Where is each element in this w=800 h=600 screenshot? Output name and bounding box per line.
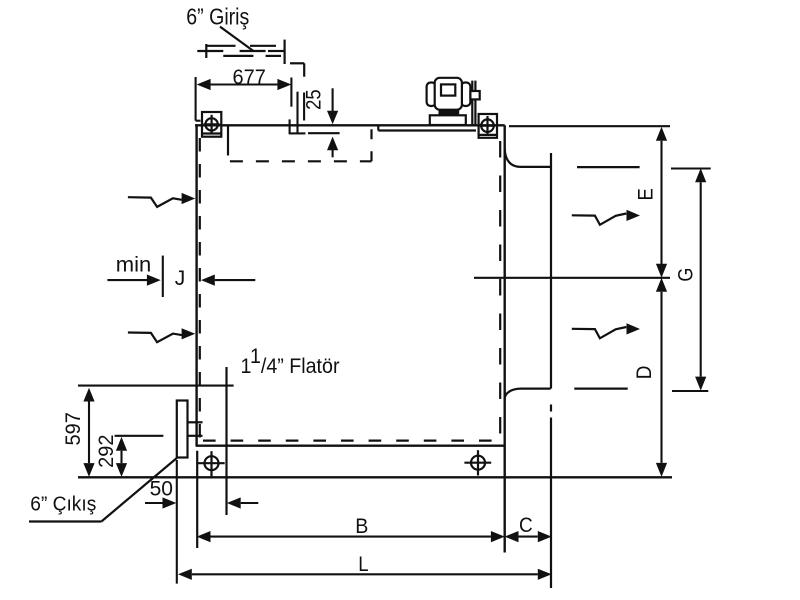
weld arrow right upper <box>572 214 627 225</box>
svg-text:6” Giriş: 6” Giriş <box>186 4 249 30</box>
tank left wall <box>195 125 197 445</box>
svg-text:D: D <box>633 366 656 380</box>
svg-text:E: E <box>634 188 657 200</box>
svg-text:J: J <box>175 267 186 290</box>
hidden shelf dashed horizontal <box>230 160 372 162</box>
left base leg <box>196 451 198 548</box>
dimension 597 <box>88 402 90 464</box>
leader line outlet <box>29 458 177 522</box>
tank right wall <box>504 125 506 552</box>
svg-text:25: 25 <box>303 89 326 110</box>
upper oil level line <box>577 166 640 168</box>
svg-text:C: C <box>519 514 533 537</box>
weld arrow right lower <box>572 327 627 338</box>
svg-text:11/4” Flatör: 11/4” Flatör <box>241 345 340 378</box>
svg-text:min: min <box>116 254 152 277</box>
hidden shelf dashed vertical <box>370 127 372 162</box>
leader line inlet <box>220 27 253 51</box>
top-left lifting lug <box>202 112 221 137</box>
svg-text:G: G <box>675 268 698 282</box>
inlet flange tick right <box>284 40 286 64</box>
dimension C <box>507 536 538 538</box>
interior dashed bottom <box>203 440 499 442</box>
outlet flange <box>177 401 188 458</box>
pump mounting plate <box>378 125 476 130</box>
dimension 677 <box>196 77 292 121</box>
dimension 292 <box>115 436 164 463</box>
svg-text:292: 292 <box>95 435 118 468</box>
weld arrow left lower <box>128 333 182 343</box>
floor line <box>78 476 672 478</box>
svg-text:597: 597 <box>62 412 85 445</box>
right end plate edge <box>550 153 552 588</box>
tank top line <box>195 124 505 126</box>
inlet pipe hidden top edge <box>207 45 276 47</box>
interior dashed right wall <box>499 141 501 441</box>
dimension E <box>660 141 662 264</box>
pump riser pipe <box>470 81 479 126</box>
tank bottom line <box>196 445 505 447</box>
outlet stub pipe <box>188 422 203 436</box>
lower oil level line <box>574 388 627 390</box>
top-right lifting lug <box>479 114 497 138</box>
interior dashed left wall <box>199 138 201 441</box>
outlet top reference line <box>78 385 234 387</box>
float tube bottom segment <box>225 367 227 515</box>
dimension G extension lines <box>671 169 711 392</box>
dimension B <box>211 536 491 538</box>
dimension 25 <box>290 88 340 157</box>
inlet hidden elbow <box>290 63 304 76</box>
svg-text:677: 677 <box>233 66 266 89</box>
mid separation line <box>474 277 670 279</box>
dimension E extension line <box>509 125 670 127</box>
anchor bolt left <box>198 451 225 476</box>
inlet pipe hidden centerline <box>197 50 283 52</box>
float tube top segment <box>227 125 229 155</box>
svg-text:50: 50 <box>150 478 173 501</box>
svg-text:L: L <box>358 553 368 576</box>
svg-text:B: B <box>355 515 368 538</box>
dimension G <box>700 182 702 376</box>
electric motor M1 <box>427 78 471 125</box>
weld arrow left upper <box>128 197 182 207</box>
inlet flange tick left <box>205 44 207 58</box>
svg-text:6” Çıkış: 6” Çıkış <box>30 494 96 516</box>
dimension L <box>192 573 538 575</box>
anchor bolt right <box>464 450 491 475</box>
right end plate top curve <box>505 149 551 167</box>
right end plate bottom curve <box>505 389 551 398</box>
dimension D <box>660 292 662 463</box>
inlet pipe hidden bottom edge <box>223 55 281 57</box>
